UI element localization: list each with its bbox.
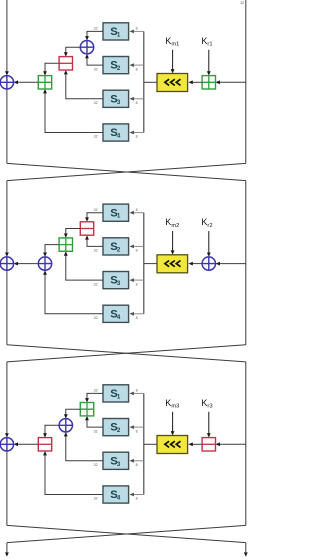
svg-text:32: 32 (94, 67, 98, 71)
wire: input byte tap into S4 (round 1) (130, 131, 144, 135)
svg-text:32: 32 (240, 1, 244, 5)
op: round-3 key combine modular subtractor (boxed minus) (202, 438, 215, 451)
svg-text:2: 2 (117, 65, 121, 72)
svg-text:8: 8 (136, 463, 138, 467)
svg-text:3: 3 (117, 280, 121, 287)
wire: right-rail tap into round-2 key op (216, 262, 246, 266)
svg-text:32: 32 (94, 463, 98, 467)
S-box S4 (round 1) (103, 124, 129, 141)
wire: S1 output into first combine op (round 2) (85, 213, 103, 222)
wire: first combine output into second op (round 3) (64, 409, 80, 418)
wire: right data rail of round 2 (x=245.8) (245, 181, 247, 345)
wire: swap crossing 2 right-to-left diagonal (7, 345, 246, 362)
svg-text:8: 8 (136, 208, 138, 212)
svg-text:32: 32 (94, 249, 98, 253)
svg-text:8: 8 (136, 282, 138, 286)
wire: Kr3 down into key op (207, 412, 211, 438)
svg-text:8: 8 (136, 67, 138, 71)
op: round-1 combine op c (modular adder (boxed plus)) (38, 76, 51, 89)
svg-text:8: 8 (136, 101, 138, 105)
op: round-3 combine op a (modular adder (boxed plus)) (80, 403, 93, 416)
svg-text:32: 32 (94, 282, 98, 286)
wire: S1 output into first combine op (round 1) (85, 31, 103, 40)
wire: S-box input bus vertical (round 2) (143, 213, 145, 314)
svg-text:32: 32 (94, 101, 98, 105)
S-box S4 (round 3) (103, 486, 129, 503)
wire: swap crossing 1 right-to-left diagonal (7, 163, 246, 180)
wire: round-2 XOR output down to swap crossing (6, 270, 8, 344)
op: round-3 combine op b (XOR (circled plus)) (59, 419, 72, 432)
op: round-3 output XOR with left half (0, 438, 13, 451)
wire: swap crossing 1 left-to-right diagonal (7, 163, 246, 180)
wire: first combine output into second op (round 2) (64, 229, 80, 238)
S-box S3 (round 1) (103, 90, 129, 107)
svg-text:8: 8 (136, 27, 138, 31)
wire: S-box input bus vertical (round 3) (143, 393, 145, 494)
op: round-1 output XOR with left half (0, 76, 13, 89)
wire: right-rail tap into round-3 key op (216, 442, 246, 446)
wire: S2 output into first combine op (round 3) (85, 416, 103, 427)
wire: F-function output into round-3 output XOR (14, 442, 39, 446)
wire: S4 output into third combine op (round 2) (43, 270, 103, 314)
op: round-1 key combine modular adder (boxed plus) (202, 76, 215, 89)
svg-text:32: 32 (94, 497, 98, 501)
op: round-1 combine op b (modular subtractor (boxed minus)) (59, 57, 72, 70)
wire: S4 output into third combine op (round 3) (43, 451, 103, 495)
op: round-3 combine op c (modular subtractor (boxed minus)) (38, 438, 51, 451)
svg-text:2: 2 (117, 427, 121, 434)
wire: key op output into rotate box (round 3) (188, 442, 202, 446)
wire: input byte tap into S3 (round 1) (130, 97, 144, 101)
wire: rotate box output to S-box input bus (round 1) (144, 81, 157, 83)
svg-text:32: 32 (94, 135, 98, 139)
wire: right data rail of round 1 (x=245.8) (245, 0, 247, 163)
S-box S1 (round 3) (103, 385, 129, 402)
wire: F-function output into round-1 output XOR (14, 80, 39, 84)
wire: left data rail into round-2 output XOR (x=6.9) (5, 181, 9, 257)
op: round-3 key-dependent rotation box <<< (157, 436, 188, 454)
wire: swap crossing 3 left-to-right diagonal (7, 525, 246, 542)
svg-text:3: 3 (117, 461, 121, 468)
wire: S2 output into first combine op (round 2) (85, 235, 103, 246)
svg-text:4: 4 (117, 495, 121, 502)
wire: first combine output into second op (round 1) (64, 47, 80, 56)
wire: Km2 down into rotate box (171, 231, 175, 255)
svg-text:1: 1 (117, 213, 121, 220)
wire: right data rail of round 3 (x=245.8) (245, 362, 247, 526)
op: round-1 key-dependent rotation box <<< (157, 74, 188, 92)
wire: swap crossing 3 right-to-left diagonal (7, 525, 246, 542)
wire: round-3 XOR output down to swap crossing (6, 451, 8, 525)
svg-text:1: 1 (117, 31, 121, 38)
wire: S2 output into first combine op (round 1) (85, 54, 103, 65)
svg-text:8: 8 (136, 429, 138, 433)
wire: input byte tap into S2 (round 3) (130, 425, 144, 429)
wire: S4 output into third combine op (round 1) (43, 89, 103, 133)
svg-text:3: 3 (117, 99, 121, 106)
wire: Km1 down into rotate box (171, 50, 175, 74)
wire: final left output arrow (5, 543, 9, 557)
S-box S1 (round 1) (103, 23, 129, 40)
wire: right-rail tap into round-1 key op (216, 80, 246, 84)
wire: input byte tap into S2 (round 1) (130, 63, 144, 67)
wire: second combine output into third op (round 3) (43, 425, 59, 437)
S-box S1 (round 2) (103, 204, 129, 221)
wire: rotate box output to S-box input bus (round 2) (144, 263, 157, 265)
wire: second combine output into third op (round 1) (43, 63, 59, 75)
wire: second combine output into third op (round 2) (43, 245, 59, 257)
wire: key op output into rotate box (round 1) (188, 80, 202, 84)
wire: input byte tap into S1 (round 1) (130, 30, 144, 34)
wire: input byte tap into S3 (round 2) (130, 278, 144, 282)
svg-text:8: 8 (136, 389, 138, 393)
op: round-2 combine op a (modular subtractor (boxed minus)) (80, 222, 93, 235)
wire: key op output into rotate box (round 2) (188, 262, 202, 266)
svg-text:4: 4 (117, 133, 121, 140)
svg-text:1: 1 (117, 393, 121, 400)
op: round-2 combine op b (modular adder (boxed plus)) (59, 238, 72, 251)
svg-text:32: 32 (94, 389, 98, 393)
wire: round-1 XOR output down to swap crossing (6, 89, 8, 163)
wire: Kr2 down into key op (207, 231, 211, 257)
wire: F-function output into round-2 output XOR (14, 262, 39, 266)
S-box S3 (round 3) (103, 452, 129, 469)
svg-text:8: 8 (136, 497, 138, 501)
svg-text:2: 2 (117, 246, 121, 253)
svg-text:4: 4 (117, 314, 121, 321)
op: round-2 combine op c (XOR (circled plus)) (38, 257, 51, 270)
svg-text:32: 32 (94, 429, 98, 433)
wire: left data rail into round-1 output XOR (x=6.9) (5, 0, 9, 76)
svg-text:8: 8 (136, 135, 138, 139)
wire: S3 output into second combine op (round 3) (64, 432, 103, 461)
wire: Km3 down into rotate box (171, 412, 175, 436)
wire: S3 output into second combine op (round 1) (64, 70, 103, 99)
op: round-2 key-dependent rotation box <<< (157, 255, 188, 273)
svg-text:32: 32 (94, 316, 98, 320)
wire: Kr1 down into key op (207, 50, 211, 76)
wire: final right output arrow (244, 543, 248, 557)
wire: left data rail into round-3 output XOR (x=6.9) (5, 362, 9, 438)
wire: input byte tap into S4 (round 2) (130, 312, 144, 316)
wire: input byte tap into S1 (round 2) (130, 211, 144, 215)
op: round-2 key combine XOR (circled plus) (202, 257, 215, 270)
op: round-2 output XOR with left half (0, 257, 13, 270)
wire: S1 output into first combine op (round 3) (85, 393, 103, 402)
op: round-1 combine op a (XOR (circled plus)) (80, 41, 93, 54)
S-box S4 (round 2) (103, 305, 129, 322)
S-box S2 (round 3) (103, 419, 129, 436)
S-box S2 (round 1) (103, 57, 129, 74)
svg-text:8: 8 (136, 316, 138, 320)
wire: input byte tap into S4 (round 3) (130, 493, 144, 497)
S-box S3 (round 2) (103, 272, 129, 289)
wire: S-box input bus vertical (round 1) (143, 31, 145, 132)
wire: input byte tap into S2 (round 2) (130, 245, 144, 249)
svg-text:32: 32 (94, 27, 98, 31)
wire: S3 output into second combine op (round 2) (64, 251, 103, 280)
wire: rotate box output to S-box input bus (round 3) (144, 443, 157, 445)
svg-text:32: 32 (94, 208, 98, 212)
S-box S2 (round 2) (103, 238, 129, 255)
svg-text:8: 8 (136, 249, 138, 253)
wire: input byte tap into S1 (round 3) (130, 392, 144, 396)
wire: input byte tap into S3 (round 3) (130, 459, 144, 463)
wire: swap crossing 2 left-to-right diagonal (7, 345, 246, 362)
